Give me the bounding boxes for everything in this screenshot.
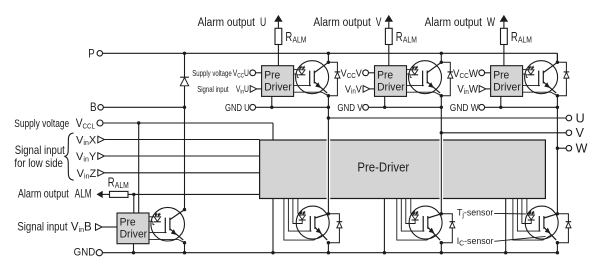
wire brake driver to sensor cathode xyxy=(149,220,153,222)
label alarm output V xyxy=(313,16,370,29)
terminal VccL xyxy=(97,120,103,126)
svg-text:Driver: Driver xyxy=(493,81,521,93)
wire VccU xyxy=(256,72,262,74)
svg-text:Alarm output: Alarm output xyxy=(18,188,69,200)
diode loop V low FWD xyxy=(441,214,452,243)
Tj sensor diode U low xyxy=(300,211,305,214)
junction U emitter xyxy=(327,94,330,97)
transistor brake IGBT xyxy=(151,207,185,241)
junction brake driver at GND rail xyxy=(132,251,135,254)
terminal VinY xyxy=(98,153,105,160)
label Tj-sensor xyxy=(457,207,493,219)
wire driver U gate lead xyxy=(294,84,311,86)
wire P to brake diode xyxy=(184,53,186,77)
svg-text:for low side: for low side xyxy=(14,157,63,170)
wire driver V to sensor cathode xyxy=(407,73,411,75)
node VinZ label xyxy=(77,168,97,181)
arrow alarm output V xyxy=(385,15,393,22)
node VinY label xyxy=(76,151,97,164)
wire B to brake vertical xyxy=(103,106,184,108)
label Ic-sensor xyxy=(457,236,494,248)
svg-text:W: W xyxy=(576,142,588,156)
svg-text:GND U: GND U xyxy=(225,102,250,113)
wire VccL into Pre-Driver top xyxy=(272,123,274,140)
svg-text:R: R xyxy=(511,31,518,45)
junction ALM / brake driver xyxy=(132,193,135,196)
wire brake driver gate lead xyxy=(149,232,167,234)
wire brake driver emitter return xyxy=(149,239,185,242)
node ALM label xyxy=(18,188,69,200)
Tj sensor diode U high xyxy=(300,66,305,69)
terminal GND W xyxy=(479,104,485,110)
wire W emitter down xyxy=(556,96,558,108)
wire driver U to sensor xyxy=(294,69,299,71)
svg-text:W: W xyxy=(487,17,495,30)
label VinU xyxy=(236,84,249,95)
wire U emitter down xyxy=(327,96,329,108)
terminal GND xyxy=(96,250,102,256)
wire V low emitter to GND rail xyxy=(440,243,442,253)
terminal VccW xyxy=(479,70,485,76)
svg-text:Pre: Pre xyxy=(264,69,280,81)
svg-text:P: P xyxy=(88,48,94,61)
svg-text:R: R xyxy=(108,176,115,190)
arrow alarm output U xyxy=(274,15,282,22)
wire P bus corner down to W collector xyxy=(556,53,558,62)
pre-driver V text xyxy=(377,69,393,81)
junction driver return V xyxy=(383,251,386,254)
wires pre-driver to W low IGBT gate/sensors xyxy=(513,199,552,241)
wire VinY to Pre-Driver xyxy=(104,155,259,157)
wire driver U to sensor cathode xyxy=(294,73,298,75)
wire driver W to sensor cathode xyxy=(523,73,527,75)
junction GND W at phase leg xyxy=(556,106,559,109)
junction P / brake diode xyxy=(183,52,186,55)
node GND label xyxy=(74,247,96,259)
junction V low collector xyxy=(440,212,443,215)
pre-driver U text xyxy=(264,69,280,81)
transistor V high-side IGBT xyxy=(409,61,442,94)
junction B / brake collector line xyxy=(183,106,186,109)
wire ALM to brake driver top xyxy=(133,194,135,213)
wire VinW xyxy=(486,88,491,90)
svg-text:Supply voltage: Supply voltage xyxy=(192,68,231,78)
wire brake driver to sensor xyxy=(149,216,154,218)
pre-driver W box xyxy=(491,66,523,97)
wire driver V gate lead xyxy=(407,84,424,86)
terminal VccV xyxy=(363,70,369,76)
junction U emitter at GND rail xyxy=(327,251,330,254)
terminal V xyxy=(566,130,572,136)
node VinX label xyxy=(76,135,97,148)
wire RALM W to pre driver W xyxy=(503,45,505,66)
svg-text:Signal input: Signal input xyxy=(15,144,65,157)
wire W low emitter to GND rail xyxy=(556,243,558,253)
resistor RALM low label xyxy=(108,176,115,190)
Tj sensor diode V high xyxy=(413,66,418,69)
junction W low collector xyxy=(556,212,559,215)
terminal VinB xyxy=(96,224,103,231)
wire GND V up to driver xyxy=(384,96,386,107)
junction brake collector xyxy=(183,208,186,211)
pre-driver V box xyxy=(375,66,407,97)
terminal VinW xyxy=(479,86,486,93)
wire driver return V xyxy=(383,199,385,253)
wire V phase leg halo crossing xyxy=(439,139,443,199)
svg-text:GND V: GND V xyxy=(337,102,363,113)
wire driver V to sensor xyxy=(407,69,412,71)
svg-text:Signal input: Signal input xyxy=(17,221,67,234)
wire output V xyxy=(441,132,566,134)
Tj sensor diode W high xyxy=(529,66,534,69)
junction GND U to driver xyxy=(270,106,273,109)
wire U leg through pre-driver box to low collector xyxy=(327,118,329,214)
wire brake driver to GND xyxy=(133,244,135,253)
pre-driver brake box xyxy=(117,213,149,244)
wire brake diode to B row xyxy=(184,86,186,108)
svg-text:Pre: Pre xyxy=(120,216,136,228)
wire output U xyxy=(328,117,566,119)
wire RALM V to pre driver V xyxy=(388,45,390,66)
label VccV xyxy=(341,68,363,80)
terminal VinZ xyxy=(98,170,105,177)
diode loop W low FWD xyxy=(557,214,568,243)
wire VinV xyxy=(370,88,375,90)
svg-text:GND: GND xyxy=(74,247,96,259)
wire VinZ to Pre-Driver xyxy=(104,172,259,174)
svg-text:V: V xyxy=(376,17,382,30)
junction brake emitter at GND rail xyxy=(183,251,186,254)
svg-text:ALM: ALM xyxy=(293,35,307,45)
junction GND V to driver xyxy=(383,106,386,109)
svg-text:R: R xyxy=(285,31,292,45)
junction V collector xyxy=(440,61,443,64)
node VinB label xyxy=(17,221,67,234)
transistor W high-side IGBT xyxy=(525,61,558,94)
transistor U high-side IGBT xyxy=(296,61,329,94)
wire W leg GND row to output row xyxy=(556,107,558,148)
junction U low emitter xyxy=(327,241,330,244)
diode loop W high FWD xyxy=(557,62,566,95)
svg-text:R: R xyxy=(396,31,403,45)
svg-text:GND W: GND W xyxy=(450,102,479,114)
label VccW xyxy=(453,68,478,80)
svg-text:ALM: ALM xyxy=(403,35,417,45)
svg-text:Alarm output: Alarm output xyxy=(313,16,370,29)
arrow alarm output W xyxy=(500,15,508,22)
terminal VinV xyxy=(363,86,370,93)
resistor RALM low xyxy=(110,191,129,197)
Tj sensor diode brake xyxy=(155,213,160,216)
junction driver return W xyxy=(504,251,507,254)
resistor RALM V xyxy=(385,28,392,44)
pre-driver W text xyxy=(493,69,509,81)
wire U phase leg halo crossing xyxy=(327,139,331,199)
label VinW xyxy=(457,84,478,96)
wire GND W up to driver xyxy=(500,96,502,107)
wire VinX to Pre-Driver xyxy=(104,139,259,141)
svg-text:Driver: Driver xyxy=(264,81,292,93)
transistor W low-side IGBT xyxy=(525,206,558,239)
terminal VccU xyxy=(250,70,256,76)
diode loop U high FWD xyxy=(328,62,337,95)
svg-text:Alarm output: Alarm output xyxy=(198,16,255,29)
resistor RALM W xyxy=(501,28,508,44)
node W output label xyxy=(576,142,588,156)
svg-text:ALM: ALM xyxy=(75,188,92,201)
svg-text:ALM: ALM xyxy=(518,35,532,45)
label signal input for low side xyxy=(15,144,65,157)
pre-driver U box xyxy=(262,66,294,97)
wire V leg through pre-driver box to low collector xyxy=(440,133,442,214)
node P label xyxy=(88,48,94,61)
Tj sensor diode V low xyxy=(413,211,418,214)
svg-text:Supply voltage: Supply voltage xyxy=(14,118,69,131)
wire V emitter down xyxy=(440,96,442,108)
diode brake freewheel D7 xyxy=(180,76,189,78)
label signal input U xyxy=(197,84,228,94)
label Pre-Driver xyxy=(357,160,409,175)
junction driver return U xyxy=(271,251,274,254)
label supply voltage U xyxy=(192,68,231,78)
svg-text:U: U xyxy=(576,111,585,125)
node V output label xyxy=(576,126,585,140)
diode W low freewheel xyxy=(566,221,572,223)
wire VccL xyxy=(103,122,273,124)
wire VccW xyxy=(485,72,491,74)
wire driver return W xyxy=(505,199,507,253)
terminal GND V xyxy=(363,104,369,110)
junction W collector xyxy=(556,61,559,64)
wire VinB to brake driver xyxy=(102,226,117,228)
node U output label xyxy=(576,111,585,125)
wire VccL drop to brake driver xyxy=(138,123,140,213)
wire driver U emitter return xyxy=(294,92,329,96)
junction U collector xyxy=(327,61,330,64)
wire driver W gate lead xyxy=(523,84,540,86)
wire GND U up to driver xyxy=(271,96,273,107)
wires pre-driver to U low IGBT gate/sensors xyxy=(284,199,323,241)
Tj sensor diode W low xyxy=(529,211,534,214)
junction W emitter at GND rail xyxy=(556,251,559,254)
diode loop V high FWD xyxy=(441,62,450,95)
wire driver return U xyxy=(272,199,274,253)
junction P / U leg xyxy=(327,52,330,55)
diode U high freewheel xyxy=(335,71,341,73)
resistor RALM W label xyxy=(511,31,518,45)
junction GND W to driver xyxy=(499,106,502,109)
wire GND U xyxy=(256,106,329,108)
wire phase leg U P to collector xyxy=(327,53,329,62)
svg-text:B: B xyxy=(90,101,97,114)
svg-text:Pre: Pre xyxy=(493,69,509,81)
svg-text:U: U xyxy=(260,17,266,30)
junction V low emitter xyxy=(440,241,443,244)
svg-text:V: V xyxy=(576,126,585,140)
junction output W xyxy=(556,147,559,150)
terminal U xyxy=(566,115,572,121)
wire P bus xyxy=(103,52,558,54)
junction P / V leg xyxy=(440,52,443,55)
resistor RALM U xyxy=(275,28,282,44)
diode loop U low FWD xyxy=(328,214,339,243)
junction GND V at phase leg xyxy=(440,106,443,109)
terminal P xyxy=(97,51,103,57)
arrow ALM output xyxy=(97,191,103,198)
wire U low emitter to GND rail xyxy=(327,243,329,253)
terminal W xyxy=(566,145,572,151)
svg-text:Alarm output: Alarm output xyxy=(425,16,482,29)
wire B down to brake IGBT collector xyxy=(184,107,186,209)
transistor V low-side IGBT xyxy=(409,206,442,239)
junction V emitter xyxy=(440,94,443,97)
wire ALM to RALM xyxy=(102,193,109,195)
svg-text:Pre: Pre xyxy=(377,69,393,81)
label alarm output U xyxy=(198,16,255,29)
label alarm output W xyxy=(425,16,482,29)
pre-driver brake text xyxy=(120,216,136,228)
svg-text:ALM: ALM xyxy=(115,180,129,190)
terminal GND U xyxy=(250,104,256,110)
svg-text:Driver: Driver xyxy=(377,81,405,93)
brace for low side inputs xyxy=(64,133,73,180)
diode U low freewheel xyxy=(337,221,343,223)
label GND W xyxy=(450,102,479,114)
wire phase leg V P to collector xyxy=(440,53,442,62)
wire RALM U to pre driver U xyxy=(277,45,279,66)
diode V low freewheel xyxy=(450,221,456,223)
wire GND V xyxy=(369,106,442,108)
node VccL label xyxy=(14,118,69,131)
junction output U xyxy=(327,116,330,119)
transistor U low-side IGBT xyxy=(296,206,329,239)
wire alarm W arrow to RALM xyxy=(503,22,505,29)
wires pre-driver to V low IGBT gate/sensors xyxy=(397,199,436,241)
wire VinU xyxy=(257,88,262,90)
wire VccV xyxy=(369,72,375,74)
wire output W xyxy=(557,147,566,149)
junction V emitter at GND rail xyxy=(440,251,443,254)
junction output V xyxy=(440,131,443,134)
svg-text:Pre-Driver: Pre-Driver xyxy=(357,160,409,175)
resistor RALM V label xyxy=(396,31,403,45)
wire phase leg W P to collector xyxy=(556,53,558,62)
terminal VinU xyxy=(250,86,257,93)
wire V leg GND row to output row xyxy=(440,107,442,133)
wire alarm V arrow to RALM xyxy=(388,22,390,29)
label GND V xyxy=(337,102,363,113)
wire driver W emitter return xyxy=(523,92,558,96)
pointer Tj-sensor xyxy=(494,212,526,215)
terminal B xyxy=(98,105,104,111)
wire driver W to sensor xyxy=(523,69,528,71)
wire brake emitter to GND xyxy=(184,243,186,253)
resistor RALM U label xyxy=(285,31,292,45)
wire GND rail xyxy=(102,252,557,254)
wire U leg GND row to output row xyxy=(327,107,329,118)
junction brake emitter xyxy=(183,241,186,244)
junction W emitter xyxy=(556,94,559,97)
wire RALM to Pre-Driver xyxy=(128,193,260,195)
pointer Ic-sensor xyxy=(494,236,545,241)
wire W leg through pre-driver box to low collector xyxy=(556,148,558,214)
wire alarm U arrow to RALM xyxy=(277,22,279,29)
junction U low collector xyxy=(327,212,330,215)
terminal VinX xyxy=(98,136,105,143)
label GND U xyxy=(225,102,250,113)
svg-text:Driver: Driver xyxy=(120,228,148,240)
low-side pre-driver block xyxy=(260,140,546,199)
diode W high freewheel xyxy=(564,71,570,73)
wire GND W xyxy=(485,106,558,108)
node B label xyxy=(90,101,97,114)
diode V high freewheel xyxy=(448,71,454,73)
junction VccL / brake supply drop xyxy=(137,121,140,124)
label VccU xyxy=(233,68,249,79)
junction GND U at phase leg xyxy=(327,106,330,109)
label VinV xyxy=(345,84,362,96)
wire driver V emitter return xyxy=(407,92,442,96)
junction W low emitter xyxy=(556,241,559,244)
svg-text:Signal input: Signal input xyxy=(197,84,228,94)
